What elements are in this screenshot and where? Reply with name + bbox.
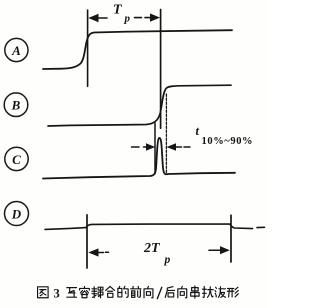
node B circle <box>4 93 28 117</box>
char 互 <box>67 288 77 298</box>
2Tp right measurement line <box>230 215 232 262</box>
node C circle <box>5 147 28 170</box>
caption: 图 3 互容耦合的前向／后向串扰波形 (drawn as strokes) <box>38 287 49 298</box>
node A circle <box>5 38 28 61</box>
char 波 <box>215 287 226 298</box>
waveform D trace <box>45 228 86 230</box>
char 的 <box>118 286 128 297</box>
Tp left measurement line <box>87 10 89 86</box>
svg-text:10%~90%: 10%~90% <box>202 136 254 147</box>
char 图 <box>38 287 49 298</box>
waveform B trace <box>48 85 231 126</box>
char 容 <box>80 286 90 297</box>
svg-text:p: p <box>164 254 171 266</box>
rise-time arrow pointing right <box>132 146 148 148</box>
svg-text:D: D <box>11 207 22 222</box>
char 串 <box>191 286 199 298</box>
waveform C trace with pulse <box>43 138 235 179</box>
svg-text:C: C <box>12 152 21 167</box>
Tp arrow pointing right <box>135 17 153 19</box>
char 后 <box>165 287 174 298</box>
char 耦 <box>92 287 103 298</box>
waveform D trailing dash <box>257 226 265 228</box>
waveform A trace <box>43 30 232 69</box>
char 向 <box>144 286 153 297</box>
svg-text:p: p <box>124 13 131 25</box>
char 前 <box>131 286 141 297</box>
rise-time arrow pointing left <box>175 146 190 148</box>
2Tp arrow pointing right <box>209 249 221 251</box>
2Tp left measurement line <box>86 215 88 268</box>
char 扰 <box>202 286 213 297</box>
char 合 <box>106 286 115 297</box>
2Tp arrow pointing left <box>97 251 109 253</box>
node D circle <box>5 202 29 226</box>
Tp arrow pointing left <box>97 17 108 19</box>
char 形 <box>227 287 238 297</box>
svg-text:T: T <box>113 3 123 18</box>
svg-text:B: B <box>11 98 21 113</box>
char 向 (2) <box>178 286 187 297</box>
rise-time 90% measurement line (dotted) <box>165 94 167 173</box>
slash ／ <box>157 287 162 298</box>
Tp right measurement line (tall) <box>160 10 162 129</box>
svg-text:3: 3 <box>54 287 60 301</box>
svg-text:2T: 2T <box>143 241 161 256</box>
svg-text:t: t <box>196 124 200 138</box>
svg-text:A: A <box>11 43 21 58</box>
rise-time 10% measurement line <box>154 123 156 174</box>
